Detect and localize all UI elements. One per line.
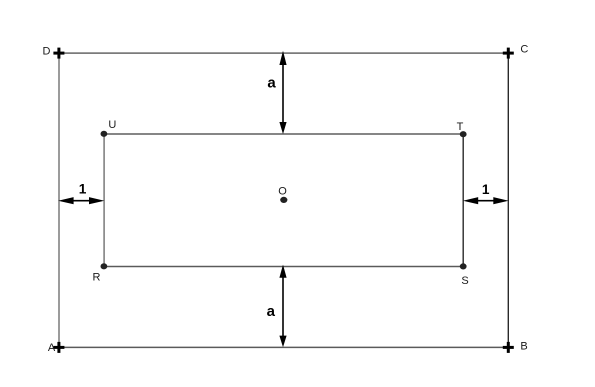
- point S: [460, 263, 467, 269]
- svg-text:a: a: [267, 75, 276, 92]
- outer rectangle side DA (left): [58, 53, 60, 347]
- outer rectangle side CB (right): [507, 53, 509, 347]
- point O (center): [280, 197, 287, 203]
- svg-text:R: R: [93, 271, 101, 283]
- svg-text:B: B: [520, 340, 527, 352]
- dimension arrow a (bottom, double-headed vertical): [279, 265, 286, 348]
- dimension arrow 1 (right, double-headed horizontal): [463, 197, 509, 204]
- svg-text:A: A: [48, 342, 56, 354]
- inner rectangle side RS (bottom): [104, 266, 463, 268]
- dimension arrow 1 (left, double-headed horizontal): [58, 197, 104, 204]
- svg-text:C: C: [520, 44, 528, 56]
- point U: [101, 131, 108, 137]
- inner rectangle side TS (right): [462, 134, 464, 267]
- svg-text:T: T: [457, 121, 464, 133]
- svg-text:O: O: [278, 186, 287, 198]
- svg-text:1: 1: [482, 182, 490, 197]
- point R: [101, 263, 108, 269]
- corner cross mark C: [503, 48, 514, 59]
- svg-text:S: S: [461, 275, 468, 287]
- svg-text:1: 1: [79, 181, 87, 196]
- dimension arrow a (top, double-headed vertical): [279, 51, 286, 134]
- corner cross mark D: [53, 48, 64, 59]
- corner cross mark A: [53, 342, 64, 353]
- inner rectangle side UR (left): [103, 134, 105, 267]
- point T: [460, 131, 467, 137]
- svg-text:a: a: [267, 303, 276, 320]
- svg-text:D: D: [43, 45, 51, 57]
- corner cross mark B: [503, 342, 514, 353]
- inner rectangle side UT (top): [104, 133, 463, 135]
- outer rectangle side AB (bottom): [59, 346, 508, 348]
- outer rectangle side DC (top): [59, 52, 508, 54]
- svg-text:U: U: [108, 119, 116, 131]
